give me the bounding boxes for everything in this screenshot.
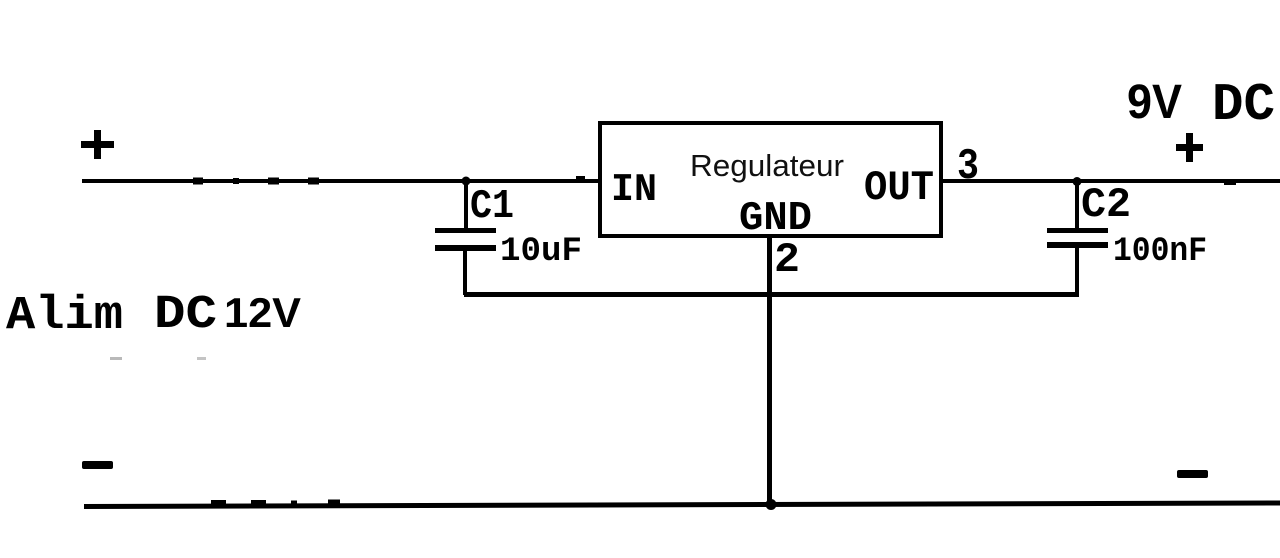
svg-text:DC: DC <box>154 289 217 342</box>
svg-text:C1: C1 <box>470 184 514 230</box>
svg-text:100nF: 100nF <box>1113 233 1207 271</box>
svg-text:DC: DC <box>1212 75 1275 135</box>
svg-text:2: 2 <box>774 236 800 284</box>
svg-text:Alim: Alim <box>6 290 123 343</box>
svg-text:10uF: 10uF <box>500 233 582 271</box>
svg-text:OUT: OUT <box>864 164 934 212</box>
svg-text:3: 3 <box>957 142 979 192</box>
svg-text:12V: 12V <box>224 289 301 336</box>
svg-text:C2: C2 <box>1081 181 1131 229</box>
svg-text:9V: 9V <box>1127 76 1182 129</box>
svg-text:IN: IN <box>611 168 657 212</box>
svg-text:Regulateur: Regulateur <box>690 148 844 183</box>
